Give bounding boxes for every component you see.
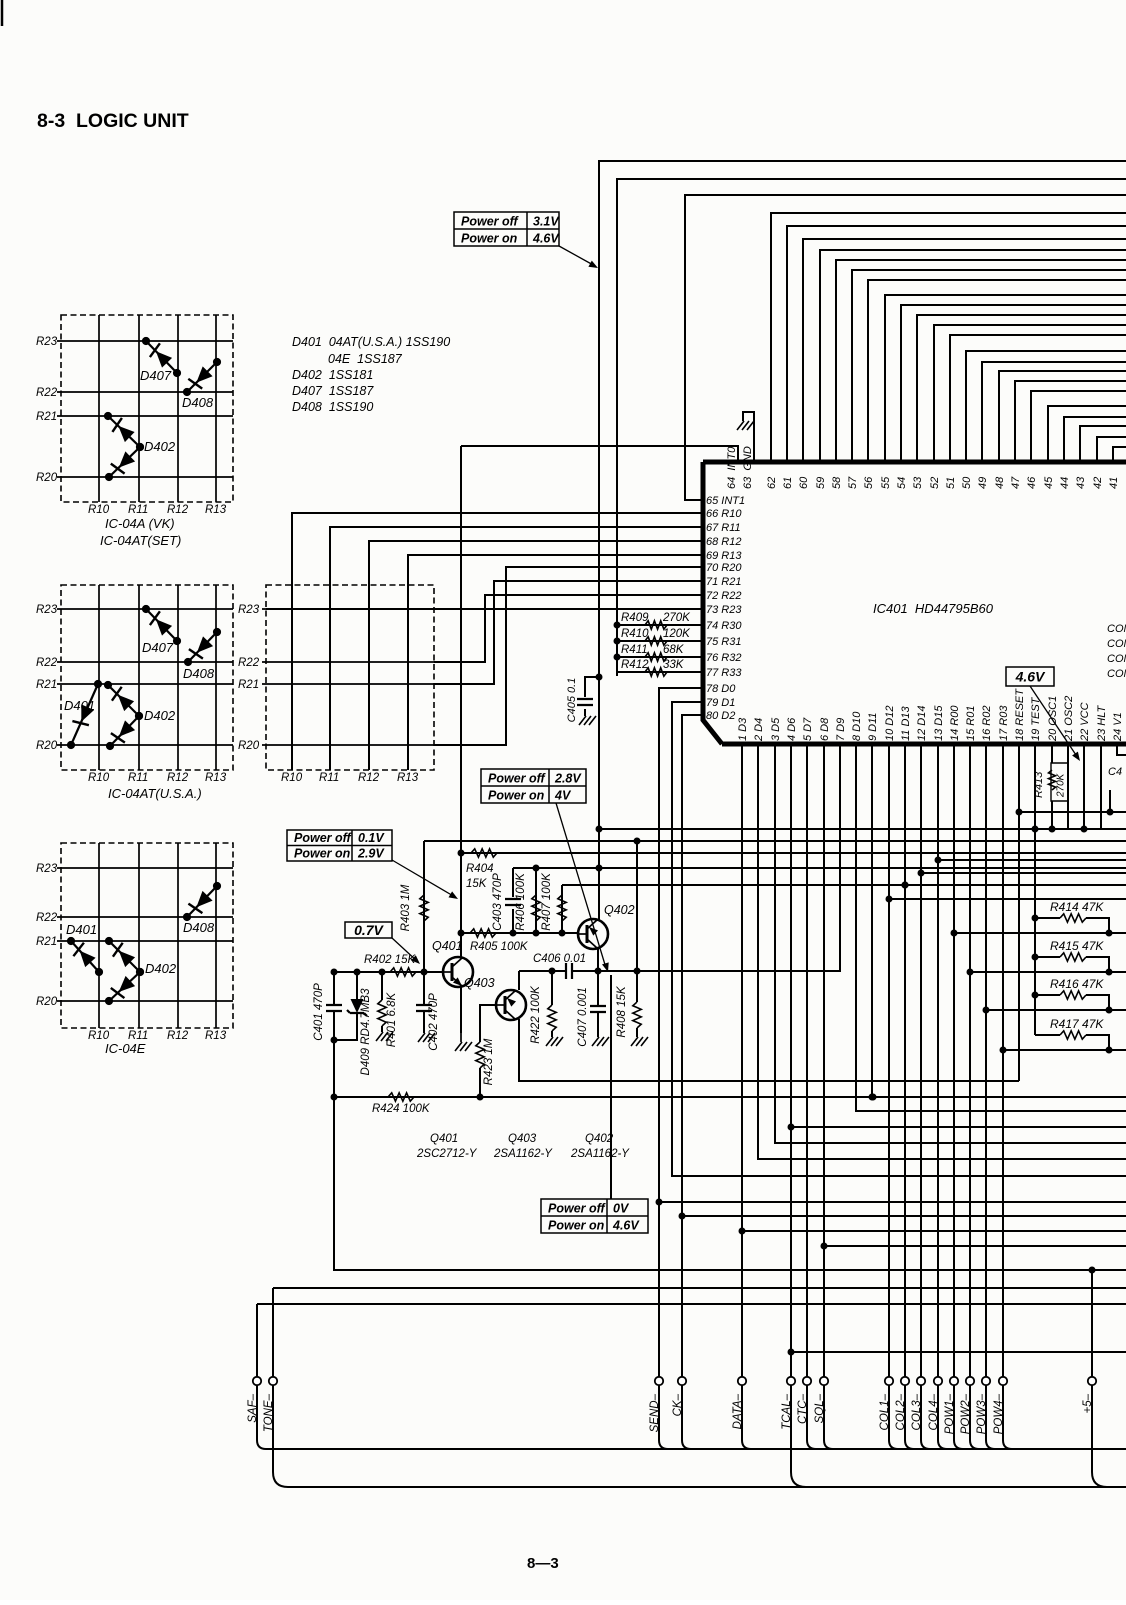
svg-text:2SA1162-Y: 2SA1162-Y <box>493 1148 553 1160</box>
svg-text:R21: R21 <box>36 679 57 691</box>
svg-text:70 R20: 70 R20 <box>706 562 742 574</box>
svg-text:C405 0.1: C405 0.1 <box>566 678 578 723</box>
svg-text:R23: R23 <box>36 336 58 348</box>
svg-text:15 R01: 15 R01 <box>965 706 977 741</box>
svg-text:Q402: Q402 <box>604 903 635 917</box>
svg-text:C4: C4 <box>1108 766 1122 778</box>
svg-text:R412: R412 <box>621 659 649 671</box>
svg-text:POW2–: POW2– <box>960 1393 972 1434</box>
svg-text:C406 0.01: C406 0.01 <box>533 953 586 965</box>
svg-text:R409: R409 <box>621 612 649 624</box>
svg-text:55: 55 <box>880 476 892 489</box>
svg-text:R20: R20 <box>36 740 58 752</box>
svg-text:62: 62 <box>766 477 778 489</box>
svg-text:POW4–: POW4– <box>993 1393 1005 1434</box>
svg-text:57: 57 <box>847 476 859 489</box>
svg-text:R413: R413 <box>1033 771 1045 798</box>
svg-text:64 INT0: 64 INT0 <box>726 446 738 489</box>
svg-text:COM1: COM1 <box>1107 623 1126 635</box>
svg-text:R23: R23 <box>36 863 58 875</box>
svg-text:53: 53 <box>912 476 924 489</box>
svg-text:18 RESET: 18 RESET <box>1014 688 1026 741</box>
svg-text:C403 470P: C403 470P <box>492 873 504 931</box>
svg-text:R10: R10 <box>281 772 303 784</box>
svg-text:19 TEST: 19 TEST <box>1030 696 1042 741</box>
svg-text:R20: R20 <box>238 740 260 752</box>
svg-text:50: 50 <box>961 476 973 489</box>
svg-text:270K: 270K <box>1056 772 1067 798</box>
svg-text:R424 100K: R424 100K <box>372 1103 431 1115</box>
svg-text:D408 1SS190: D408 1SS190 <box>292 400 373 414</box>
svg-text:R22: R22 <box>36 912 58 924</box>
svg-text:R13: R13 <box>205 772 227 784</box>
svg-text:IC-04AT(SET): IC-04AT(SET) <box>100 533 181 548</box>
svg-text:R423 1M: R423 1M <box>483 1038 495 1085</box>
svg-text:R10: R10 <box>88 504 110 516</box>
svg-text:8—3: 8—3 <box>527 1555 559 1572</box>
svg-text:Q403: Q403 <box>508 1133 537 1145</box>
svg-text:+5–: +5– <box>1082 1393 1094 1413</box>
svg-text:Q402: Q402 <box>585 1133 614 1145</box>
svg-text:D401 04AT(U.S.A.) 1SS190: D401 04AT(U.S.A.) 1SS190 <box>292 335 450 349</box>
svg-text:45: 45 <box>1043 476 1055 489</box>
svg-text:42: 42 <box>1092 477 1104 489</box>
svg-text:71 R21: 71 R21 <box>706 576 741 588</box>
svg-text:POW3–: POW3– <box>976 1393 988 1434</box>
svg-text:24 V1: 24 V1 <box>1112 712 1124 742</box>
svg-text:R20: R20 <box>36 996 58 1008</box>
svg-text:1 D3: 1 D3 <box>737 717 749 741</box>
svg-text:0V: 0V <box>613 1201 630 1215</box>
svg-text:04E 1SS187: 04E 1SS187 <box>328 352 403 366</box>
svg-text:COL4–: COL4– <box>928 1393 940 1430</box>
svg-text:5 D7: 5 D7 <box>802 717 814 741</box>
svg-text:D407: D407 <box>142 640 174 655</box>
svg-text:33K: 33K <box>663 659 685 671</box>
svg-text:D408: D408 <box>183 666 215 681</box>
svg-text:D402 1SS181: D402 1SS181 <box>292 368 373 382</box>
svg-text:IC-04AT(U.S.A.): IC-04AT(U.S.A.) <box>108 786 202 801</box>
svg-text:R13: R13 <box>397 772 419 784</box>
svg-text:16 R02: 16 R02 <box>981 706 993 741</box>
svg-text:Power off: Power off <box>294 831 353 845</box>
svg-text:COL2–: COL2– <box>895 1393 907 1430</box>
svg-text:R417 47K: R417 47K <box>1050 1017 1104 1031</box>
svg-text:R13: R13 <box>205 1030 227 1042</box>
svg-text:21 OSC2: 21 OSC2 <box>1063 696 1075 742</box>
svg-text:D402: D402 <box>145 961 177 976</box>
svg-text:9 D11: 9 D11 <box>867 712 879 741</box>
svg-text:2SA1162-Y: 2SA1162-Y <box>570 1148 630 1160</box>
svg-text:R22: R22 <box>36 657 58 669</box>
svg-text:2.8V: 2.8V <box>554 771 582 785</box>
svg-text:D402: D402 <box>144 439 176 454</box>
svg-text:49: 49 <box>977 477 989 489</box>
svg-text:2 D4: 2 D4 <box>753 718 765 742</box>
svg-text:80 D2: 80 D2 <box>706 710 735 722</box>
svg-text:68 R12: 68 R12 <box>706 536 741 548</box>
svg-text:COL1–: COL1– <box>879 1393 891 1430</box>
svg-text:R410: R410 <box>621 628 649 640</box>
svg-text:R12: R12 <box>167 1030 189 1042</box>
svg-text:0.1V: 0.1V <box>358 831 385 845</box>
svg-text:12 D14: 12 D14 <box>916 706 928 741</box>
svg-text:D401: D401 <box>66 922 97 937</box>
svg-text:51: 51 <box>945 477 957 489</box>
svg-text:3 D5: 3 D5 <box>770 717 782 741</box>
svg-text:0.7V: 0.7V <box>354 922 384 938</box>
svg-text:R21: R21 <box>36 936 57 948</box>
svg-text:DATA–: DATA– <box>732 1393 744 1429</box>
svg-text:COM3: COM3 <box>1107 653 1126 665</box>
svg-text:59: 59 <box>815 477 827 489</box>
svg-text:IC401 HD44795B60: IC401 HD44795B60 <box>873 601 994 616</box>
svg-text:CK–: CK– <box>672 1393 684 1416</box>
svg-text:R404: R404 <box>466 863 494 875</box>
svg-text:Power on: Power on <box>294 847 351 861</box>
svg-text:67 R11: 67 R11 <box>706 522 741 534</box>
svg-text:75 R31: 75 R31 <box>706 636 741 648</box>
svg-text:52: 52 <box>929 477 941 489</box>
svg-text:R12: R12 <box>358 772 380 784</box>
svg-text:63 GND: 63 GND <box>742 446 754 489</box>
svg-text:SQL–: SQL– <box>814 1393 826 1423</box>
svg-text:68K: 68K <box>663 644 685 656</box>
svg-text:46: 46 <box>1026 476 1038 489</box>
svg-text:Power off: Power off <box>488 771 547 785</box>
svg-text:R22: R22 <box>238 657 260 669</box>
svg-text:Q403: Q403 <box>464 976 495 990</box>
svg-text:61: 61 <box>782 477 794 489</box>
svg-text:120K: 120K <box>663 628 691 640</box>
svg-text:CTC–: CTC– <box>797 1393 809 1424</box>
svg-text:R416 47K: R416 47K <box>1050 977 1104 991</box>
svg-text:COL3–: COL3– <box>911 1393 923 1430</box>
svg-text:2.9V: 2.9V <box>357 847 385 861</box>
svg-text:TCAL–: TCAL– <box>781 1393 793 1429</box>
svg-text:R403 1M: R403 1M <box>400 884 412 931</box>
svg-text:Power on: Power on <box>461 231 518 245</box>
svg-text:R414 47K: R414 47K <box>1050 900 1104 914</box>
svg-text:270K: 270K <box>662 612 691 624</box>
svg-text:SEND–: SEND– <box>649 1393 661 1432</box>
svg-text:23 HLT: 23 HLT <box>1096 704 1108 742</box>
svg-text:44: 44 <box>1059 477 1071 489</box>
svg-text:4.6V: 4.6V <box>612 1218 640 1232</box>
svg-text:14 R00: 14 R00 <box>949 705 961 741</box>
svg-text:COM2: COM2 <box>1107 638 1126 650</box>
svg-text:R12: R12 <box>167 504 189 516</box>
svg-text:D409 RD4.7MB3: D409 RD4.7MB3 <box>360 988 372 1076</box>
svg-text:R20: R20 <box>36 472 58 484</box>
svg-text:R411: R411 <box>621 644 648 656</box>
svg-text:3.1V: 3.1V <box>533 214 560 228</box>
svg-text:8 D10: 8 D10 <box>851 711 863 741</box>
svg-text:POW1–: POW1– <box>944 1393 956 1434</box>
svg-text:41: 41 <box>1108 477 1120 489</box>
svg-text:4.6V: 4.6V <box>1015 669 1046 685</box>
svg-text:56: 56 <box>863 476 875 489</box>
svg-text:2SC2712-Y: 2SC2712-Y <box>416 1148 478 1160</box>
svg-text:6 D8: 6 D8 <box>819 717 831 741</box>
svg-text:D407: D407 <box>140 368 172 383</box>
svg-text:10 D12: 10 D12 <box>884 706 896 741</box>
svg-text:11 D13: 11 D13 <box>900 705 912 741</box>
svg-text:Power on: Power on <box>548 1218 605 1232</box>
svg-text:Power off: Power off <box>548 1201 607 1215</box>
svg-text:4 D6: 4 D6 <box>786 717 798 741</box>
svg-text:48: 48 <box>994 476 1006 489</box>
svg-text:D402: D402 <box>144 708 176 723</box>
svg-text:IC-04E: IC-04E <box>105 1041 146 1056</box>
svg-text:69 R13: 69 R13 <box>706 550 742 562</box>
svg-text:65 INT1: 65 INT1 <box>706 495 745 507</box>
svg-text:60: 60 <box>798 476 810 489</box>
svg-text:Q401: Q401 <box>432 939 463 953</box>
svg-text:76 R32: 76 R32 <box>706 652 741 664</box>
svg-text:20 OSC1: 20 OSC1 <box>1047 696 1059 742</box>
svg-text:R21: R21 <box>36 411 57 423</box>
svg-text:54: 54 <box>896 477 908 489</box>
svg-text:13 D15: 13 D15 <box>933 705 945 741</box>
svg-text:R23: R23 <box>36 604 58 616</box>
svg-text:Q401: Q401 <box>430 1133 458 1145</box>
svg-text:R23: R23 <box>238 604 260 616</box>
svg-text:R22: R22 <box>36 387 58 399</box>
svg-text:66 R10: 66 R10 <box>706 508 742 520</box>
svg-text:COM4: COM4 <box>1107 668 1126 680</box>
svg-text:R407 100K: R407 100K <box>541 872 553 931</box>
svg-text:73 R23: 73 R23 <box>706 604 742 616</box>
svg-text:C402 470P: C402 470P <box>428 993 440 1051</box>
svg-text:7 D9: 7 D9 <box>835 718 847 741</box>
svg-text:47: 47 <box>1010 476 1022 489</box>
svg-text:R13: R13 <box>205 504 227 516</box>
svg-text:R402 15K: R402 15K <box>364 954 416 966</box>
svg-text:R11: R11 <box>128 504 148 516</box>
svg-text:Power on: Power on <box>488 788 545 802</box>
svg-text:D408: D408 <box>182 395 214 410</box>
svg-text:D401: D401 <box>64 698 95 713</box>
svg-text:8-3 LOGIC UNIT: 8-3 LOGIC UNIT <box>37 110 189 132</box>
svg-text:D408: D408 <box>183 920 215 935</box>
svg-text:C407 0.001: C407 0.001 <box>577 987 589 1046</box>
svg-text:Power off: Power off <box>461 214 520 228</box>
svg-text:R10: R10 <box>88 772 110 784</box>
svg-text:D407 1SS187: D407 1SS187 <box>292 384 374 398</box>
svg-text:72 R22: 72 R22 <box>706 590 741 602</box>
svg-text:R422 100K: R422 100K <box>530 985 542 1044</box>
svg-text:TONE–: TONE– <box>263 1393 275 1432</box>
svg-text:SAF–: SAF– <box>247 1393 259 1422</box>
svg-text:79 D1: 79 D1 <box>706 697 735 709</box>
svg-text:R408 15K: R408 15K <box>616 985 628 1037</box>
svg-text:22 VCC: 22 VCC <box>1079 702 1091 742</box>
svg-text:77 R33: 77 R33 <box>706 667 742 679</box>
svg-text:R401 6.8K: R401 6.8K <box>386 992 398 1048</box>
svg-text:R405 100K: R405 100K <box>470 941 529 953</box>
svg-text:R11: R11 <box>128 772 148 784</box>
svg-text:17 R03: 17 R03 <box>998 705 1010 741</box>
svg-text:R415 47K: R415 47K <box>1050 939 1104 953</box>
svg-text:78 D0: 78 D0 <box>706 683 736 695</box>
svg-text:4.6V: 4.6V <box>532 231 560 245</box>
svg-text:74 R30: 74 R30 <box>706 620 742 632</box>
svg-text:R12: R12 <box>167 772 189 784</box>
svg-text:IC-04A (VK): IC-04A (VK) <box>105 516 175 531</box>
svg-text:C401 470P: C401 470P <box>313 983 325 1041</box>
svg-text:58: 58 <box>831 476 843 489</box>
svg-text:43: 43 <box>1075 476 1087 489</box>
svg-text:R406 100K: R406 100K <box>515 872 527 931</box>
svg-text:R11: R11 <box>319 772 339 784</box>
svg-text:15K: 15K <box>466 878 488 890</box>
svg-text:R21: R21 <box>238 679 259 691</box>
svg-text:4V: 4V <box>554 788 572 802</box>
